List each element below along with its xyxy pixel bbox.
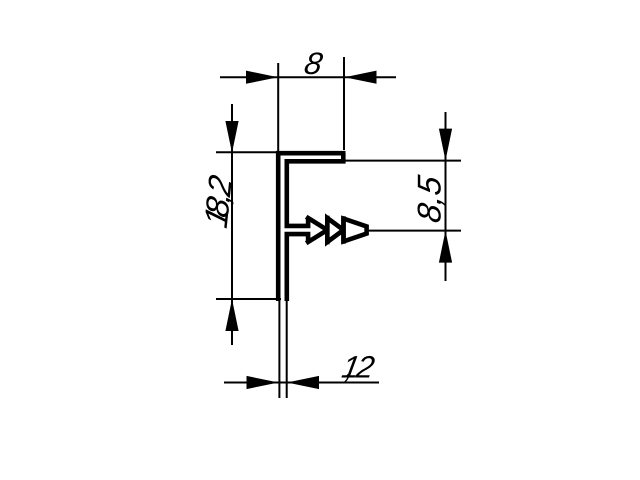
svg-text:8: 8 <box>302 46 326 81</box>
svg-text:18,2: 18,2 <box>198 171 239 231</box>
svg-text:8,5: 8,5 <box>412 173 449 226</box>
